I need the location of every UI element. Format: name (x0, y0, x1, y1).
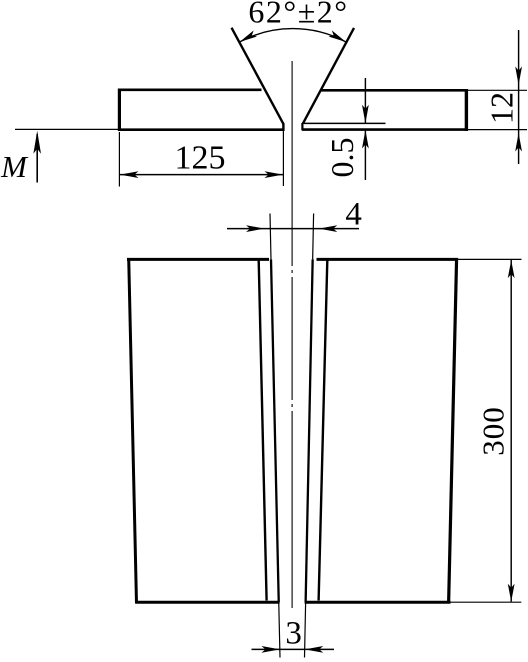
12 arrow down (515, 67, 522, 86)
0.5 arrow down (362, 105, 369, 124)
arc arrowhead right (329, 30, 347, 42)
left block top edge (127, 258, 269, 261)
right plate top edge (321, 89, 467, 92)
svg-text:12: 12 (484, 92, 520, 124)
right plate right edge (465, 89, 468, 131)
left groove edge (259, 261, 267, 601)
right root face (301, 123, 303, 130)
left block bottom edge (136, 601, 280, 604)
12 dim line (518, 30, 520, 164)
arc arrowhead left (240, 30, 258, 42)
4 dim line (227, 228, 359, 230)
right root line lower extension (305, 602, 306, 657)
M arrow line (36, 134, 38, 183)
right block bottom edge (305, 601, 451, 604)
0.5 arrow up (362, 130, 369, 149)
left plate bottom edge (118, 128, 284, 131)
125 left extension (118, 132, 120, 187)
0.5 dim upper arrow line (364, 78, 366, 123)
svg-text:300: 300 (475, 406, 510, 456)
left root face (282, 124, 284, 132)
62 deg dimension arc (240, 29, 347, 42)
right bevel / V-line (303, 28, 354, 124)
left block left edge (129, 258, 137, 604)
4 arrow left (319, 225, 338, 232)
right groove edge (319, 261, 328, 601)
300 top extension (458, 258, 522, 260)
300 dim line (510, 260, 512, 602)
baseline extension to M (15, 128, 118, 130)
right plate bottom edge (302, 128, 467, 131)
0.5 dim lower arrow line (364, 130, 366, 180)
left plate left edge (118, 89, 121, 132)
125 dim line (119, 174, 283, 176)
bottom edge extension (12 dim) (467, 129, 528, 131)
M arrowhead (33, 131, 41, 154)
right root line (306, 259, 313, 602)
right root line upper extension (312, 214, 315, 260)
4 arrow right (246, 225, 265, 232)
left bevel / V-line (232, 28, 284, 125)
center line (291, 61, 293, 608)
left root line (271, 259, 279, 602)
3 dim line (252, 648, 335, 650)
125 arrow left (120, 171, 139, 178)
300 arrow down (508, 584, 515, 602)
125 arrow right (265, 171, 284, 178)
svg-text:0.5: 0.5 (324, 138, 360, 178)
0.5 extension line (root face level) (304, 122, 386, 124)
svg-text:62°±2°: 62°±2° (248, 0, 348, 30)
300 arrow up (508, 260, 515, 278)
3 arrow right (261, 646, 280, 653)
svg-text:M: M (0, 149, 29, 184)
top edge extension (12 dim) (467, 89, 528, 91)
left root line lower extension (279, 602, 280, 657)
left root line upper extension (270, 214, 271, 260)
125 right extension (282, 131, 284, 186)
svg-text:4: 4 (345, 197, 362, 233)
3 arrow left (305, 646, 324, 653)
svg-text:125: 125 (175, 140, 226, 177)
left plate top edge (118, 89, 262, 92)
svg-text:3: 3 (285, 616, 302, 652)
right block right edge (449, 258, 457, 604)
12 arrow up (515, 133, 522, 152)
right block top edge (317, 258, 459, 261)
300 bottom extension (450, 601, 522, 603)
